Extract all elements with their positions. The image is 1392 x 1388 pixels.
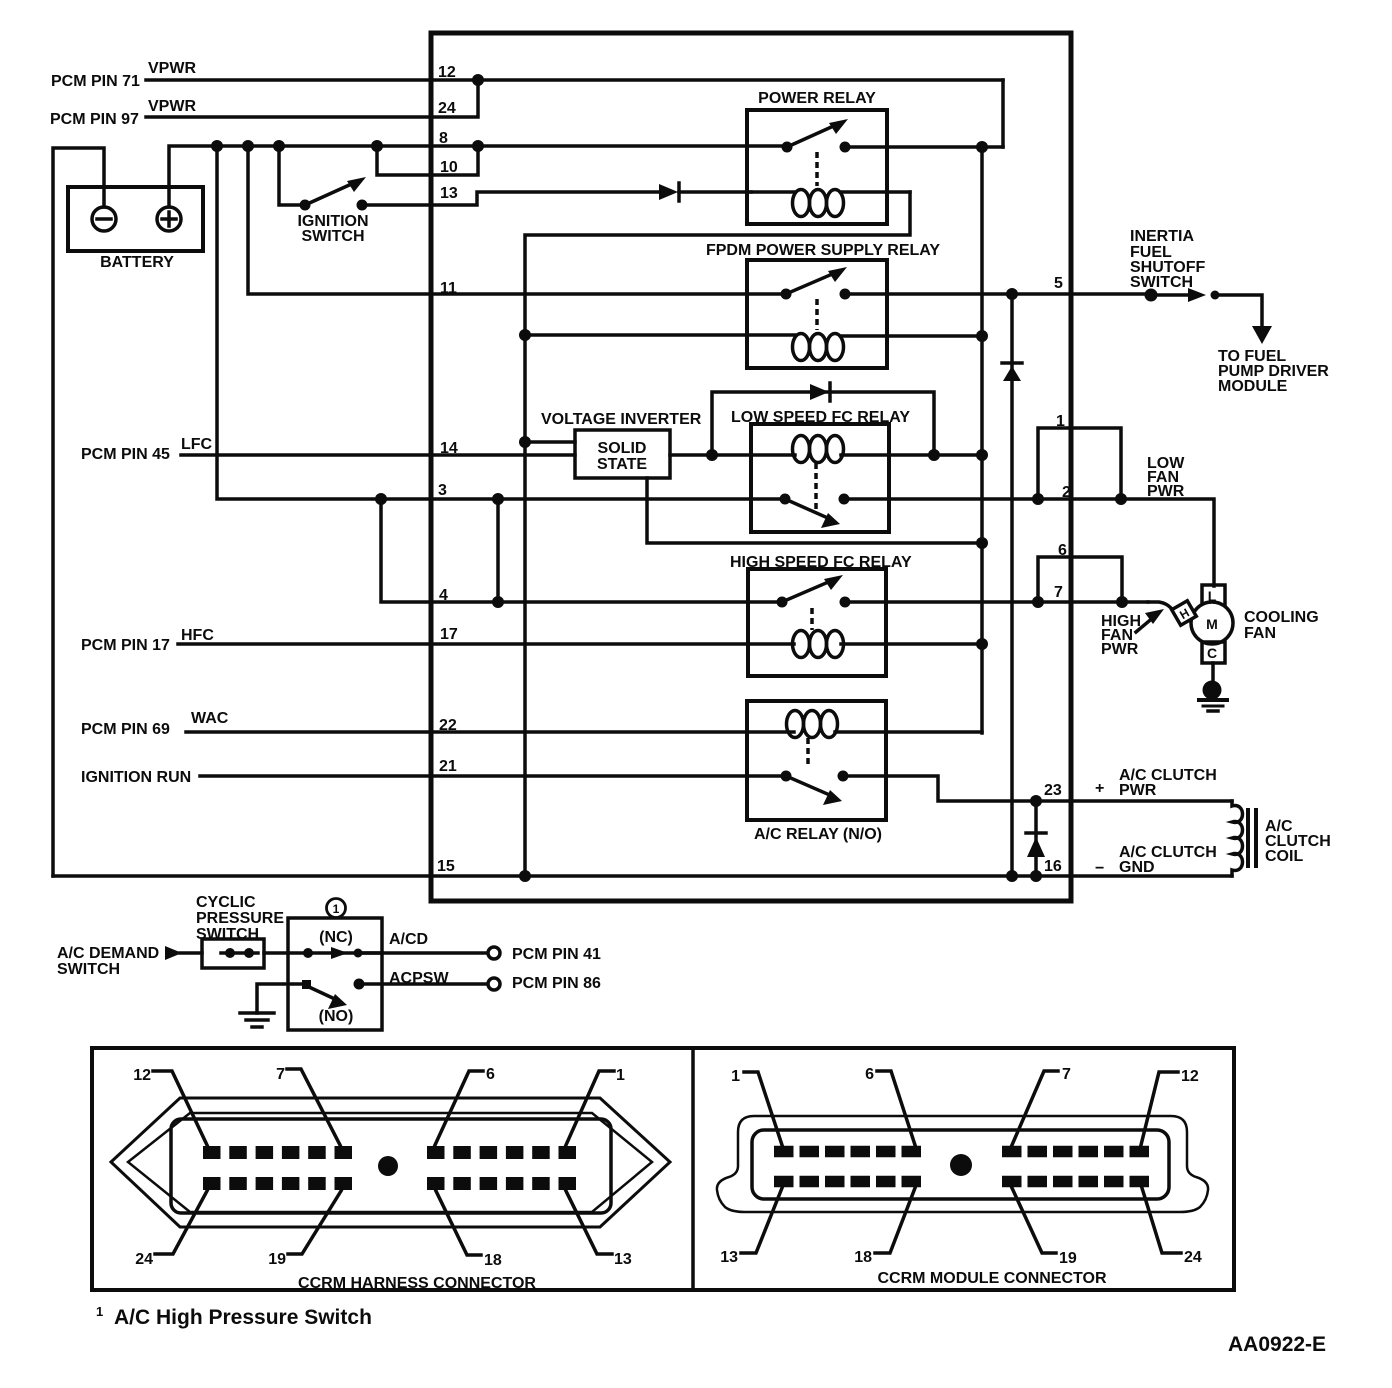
wire LS coil bypass diode loop	[712, 392, 934, 455]
svg-text:CCRM HARNESS CONNECTOR: CCRM HARNESS CONNECTOR	[298, 1275, 536, 1292]
svg-text:COIL: COIL	[1265, 848, 1303, 865]
svg-text:6: 6	[1058, 542, 1067, 559]
cyclic pressure switch	[202, 939, 264, 968]
NC contact set	[303, 947, 363, 959]
wire A/CD to PCM PIN 41	[357, 951, 487, 955]
module pins row top left	[774, 1146, 923, 1158]
node 3-line junction x498	[492, 493, 504, 505]
wire pin 1 jumper bracket	[1038, 428, 1121, 499]
node bus junction x377	[371, 140, 383, 152]
svg-text:A/C DEMAND: A/C DEMAND	[57, 945, 159, 962]
circled 1 marker	[327, 899, 346, 918]
CCRM harness connector outline inner	[128, 1113, 652, 1212]
svg-text:16: 16	[1044, 858, 1062, 875]
svg-text:19: 19	[1059, 1250, 1077, 1267]
svg-text:8: 8	[439, 130, 448, 147]
svg-text:1: 1	[616, 1067, 625, 1084]
ignition switch feed wire	[279, 146, 305, 205]
svg-text:PCM PIN 97: PCM PIN 97	[50, 111, 139, 128]
svg-text:M: M	[1206, 616, 1218, 632]
wire battery negative to ground line	[53, 148, 104, 876]
leader module pin 12	[1141, 1072, 1178, 1145]
node switched bus top	[976, 141, 988, 153]
module center index hole	[950, 1154, 972, 1176]
wire PCM PIN 17 HFC to pin 17 coil	[178, 642, 794, 646]
svg-text:24: 24	[438, 100, 456, 117]
relay POWER RELAY	[747, 110, 910, 224]
wire inverter ground side to bus	[647, 478, 982, 543]
label arrow high fan pwr	[1136, 609, 1164, 632]
relay LOW SPEED FC RELAY	[751, 424, 982, 532]
A/C high pressure switch box	[288, 918, 382, 1030]
wire pin 23 from A/C relay contact	[843, 776, 1232, 801]
relay FPDM POWER SUPPLY RELAY	[525, 260, 982, 368]
wire 3-4 outer jumper	[381, 499, 782, 602]
wire inverter output to LS coil	[670, 453, 795, 457]
svg-text:GND: GND	[1119, 859, 1155, 876]
svg-text:PRESSURE: PRESSURE	[196, 910, 284, 927]
svg-text:1: 1	[1056, 413, 1065, 430]
diode D3 fuel pump clamp	[1002, 363, 1022, 381]
wire PCM PIN 45 LFC to pin 14	[181, 453, 575, 457]
wire pin 10 jumper	[377, 146, 478, 175]
A/C clutch coil	[1232, 801, 1256, 876]
svg-text:AA0922-E: AA0922-E	[1228, 1333, 1326, 1356]
svg-text:FPDM POWER SUPPLY RELAY: FPDM POWER SUPPLY RELAY	[706, 242, 940, 259]
relay A/C RELAY (N/O)	[747, 701, 982, 820]
svg-text:PWR: PWR	[1101, 641, 1139, 658]
svg-text:24: 24	[135, 1251, 153, 1268]
svg-text:PCM PIN 71: PCM PIN 71	[51, 73, 140, 90]
node FPDM coil to bus	[976, 330, 988, 342]
wire high fan pwr to motor H terminal	[1148, 602, 1177, 613]
wire PCM PIN 71 VPWR to pin 12	[146, 78, 1003, 82]
svg-text:7: 7	[276, 1066, 285, 1083]
svg-text:COOLING: COOLING	[1244, 609, 1319, 626]
node ground junction x1036	[1030, 870, 1042, 882]
svg-text:IGNITION RUN: IGNITION RUN	[81, 769, 191, 786]
module pins row bottom right	[1002, 1176, 1149, 1188]
svg-text:2: 2	[1062, 484, 1071, 501]
diode D1 on pin 13 line	[659, 183, 751, 201]
svg-text:PCM PIN 86: PCM PIN 86	[512, 975, 601, 992]
svg-text:SWITCH: SWITCH	[57, 961, 120, 978]
svg-text:C: C	[1207, 645, 1217, 661]
node pin1 bracket right	[1115, 493, 1127, 505]
svg-text:L: L	[1208, 588, 1217, 604]
wire power relay switched output pin 8	[845, 145, 1003, 149]
node LS coil diode junction left	[706, 449, 718, 461]
svg-text:22: 22	[439, 717, 457, 734]
node 4-line junction x498	[492, 596, 504, 608]
svg-text:14: 14	[440, 440, 458, 457]
harness pins row bottom left	[203, 1177, 352, 1190]
svg-text:7: 7	[1062, 1066, 1071, 1083]
CCRM module connector outline outer	[717, 1116, 1208, 1212]
node pin6 bracket right	[1116, 596, 1128, 608]
harness pins row top left	[203, 1146, 352, 1159]
node LS coil diode junction right	[928, 449, 940, 461]
wire pin 6 jumper bracket	[1038, 557, 1122, 602]
svg-text:SWITCH: SWITCH	[196, 926, 259, 943]
leader module pin 19	[1012, 1188, 1056, 1253]
svg-text:12: 12	[1181, 1068, 1199, 1085]
node pin6 bracket left	[1032, 596, 1044, 608]
svg-text:SWITCH: SWITCH	[1130, 274, 1193, 291]
svg-text:VPWR: VPWR	[148, 60, 196, 77]
svg-text:CYCLIC: CYCLIC	[196, 894, 256, 911]
CCRM harness connector shell	[171, 1119, 611, 1213]
svg-text:VOLTAGE INVERTER: VOLTAGE INVERTER	[541, 411, 702, 428]
wire PCM PIN 69 WAC to pin 22 coil	[186, 730, 794, 734]
ignition switch	[300, 177, 368, 211]
svg-text:(NC): (NC)	[319, 929, 353, 946]
leader harness pin 13	[566, 1191, 612, 1254]
harness pins row top right	[427, 1146, 576, 1159]
svg-text:INERTIA: INERTIA	[1130, 228, 1194, 245]
svg-text:5: 5	[1054, 275, 1063, 292]
svg-text:6: 6	[865, 1066, 874, 1083]
wire to fuel pump driver module	[1215, 295, 1262, 328]
battery BATTERY	[68, 187, 203, 251]
leader harness pin 6	[435, 1071, 483, 1145]
ground cyclic switch	[240, 984, 303, 1027]
leader module pin 1	[744, 1072, 782, 1145]
wire ground return trunk	[525, 192, 910, 876]
node VPWR junction	[472, 74, 484, 86]
leader module pin 24	[1142, 1188, 1181, 1253]
svg-text:HIGH SPEED FC RELAY: HIGH SPEED FC RELAY	[730, 554, 912, 571]
terminal PCM PIN 41	[488, 947, 500, 959]
svg-text:FAN: FAN	[1244, 625, 1276, 642]
svg-text:+: +	[1095, 780, 1104, 797]
wire battery positive to bus	[169, 146, 785, 207]
svg-text:PCM PIN 69: PCM PIN 69	[81, 721, 170, 738]
svg-text:21: 21	[439, 758, 457, 775]
leader module pin 7	[1012, 1071, 1058, 1145]
svg-text:−: −	[1095, 860, 1104, 877]
NO contact set	[302, 979, 365, 1010]
node pin5 to fuel diode branch	[1006, 288, 1018, 300]
node bus junction x248	[242, 140, 254, 152]
node trunk junction FPDM coil	[519, 329, 531, 341]
node bus junction x279	[273, 140, 285, 152]
svg-text:4: 4	[439, 587, 448, 604]
diode D2 bypass	[810, 383, 830, 401]
node LS coil to bus	[976, 449, 988, 461]
wire pin 13 from ignition switch	[362, 192, 658, 205]
leader harness pin 1	[566, 1071, 614, 1145]
wire fuel diode branch vertical	[1010, 294, 1014, 876]
CCRM harness connector outline outer	[111, 1098, 670, 1227]
svg-text:A/C RELAY (N/O): A/C RELAY (N/O)	[754, 826, 882, 843]
wire 3-4 inner jumper	[496, 499, 500, 602]
svg-text:(NO): (NO)	[319, 1008, 354, 1025]
svg-text:1: 1	[333, 902, 340, 916]
node clutch diode top	[1030, 795, 1042, 807]
svg-text:ACPSW: ACPSW	[389, 970, 449, 987]
svg-text:6: 6	[486, 1066, 495, 1083]
CCRM module connector shell	[752, 1130, 1169, 1199]
terminal PCM PIN 86	[488, 978, 500, 990]
node pin1 bracket left	[1032, 493, 1044, 505]
node ground junction x1012	[1006, 870, 1018, 882]
svg-text:MODULE: MODULE	[1218, 378, 1288, 395]
wire pin 12 drop to switched bus	[1001, 80, 1005, 147]
wire PCM PIN 97 VPWR to pin 24	[146, 80, 478, 117]
svg-text:SOLID: SOLID	[598, 440, 647, 457]
wire ground line pin 15 / 16	[53, 874, 1232, 878]
svg-text:VPWR: VPWR	[148, 98, 196, 115]
svg-text:13: 13	[614, 1251, 632, 1268]
node bus junction x478	[472, 140, 484, 152]
wire pin 3 feed	[217, 146, 785, 499]
svg-text:PWR: PWR	[1119, 782, 1157, 799]
A/C demand switch arrow	[165, 946, 202, 960]
svg-text:A/C High Pressure Switch: A/C High Pressure Switch	[114, 1306, 372, 1329]
svg-text:A/CD: A/CD	[389, 931, 428, 948]
wire pin 11 feed	[248, 146, 786, 294]
svg-text:13: 13	[440, 185, 458, 202]
svg-text:24: 24	[1184, 1249, 1202, 1266]
svg-text:PCM PIN 17: PCM PIN 17	[81, 637, 170, 654]
relay HIGH SPEED FC RELAY	[748, 569, 982, 676]
leader module pin 6	[877, 1071, 915, 1145]
svg-text:LFC: LFC	[181, 436, 213, 453]
svg-text:23: 23	[1044, 782, 1062, 799]
svg-text:18: 18	[854, 1249, 872, 1266]
svg-text:3: 3	[438, 482, 447, 499]
leader harness pin 18	[436, 1191, 481, 1255]
module pins row bottom left	[774, 1176, 923, 1188]
node HS coil to bus	[976, 638, 988, 650]
svg-text:10: 10	[440, 159, 458, 176]
inertia fuel shutoff switch	[1145, 288, 1220, 302]
svg-text:12: 12	[438, 64, 456, 81]
leader harness pin 19	[288, 1191, 341, 1254]
wire switched B+ bus	[980, 147, 984, 733]
harness pins row bottom right	[427, 1177, 576, 1190]
svg-text:17: 17	[440, 626, 458, 643]
svg-text:PCM PIN 45: PCM PIN 45	[81, 446, 170, 463]
svg-text:1: 1	[96, 1304, 103, 1319]
wire ACPSW to PCM PIN 86	[359, 982, 487, 986]
node trunk junction inverter	[519, 436, 531, 448]
leader harness pin 24	[155, 1191, 207, 1254]
node bus junction x217	[211, 140, 223, 152]
module pins row top right	[1002, 1146, 1149, 1158]
svg-text:HFC: HFC	[181, 627, 214, 644]
svg-text:SWITCH: SWITCH	[301, 228, 364, 245]
wire IGNITION RUN to pin 21	[200, 774, 786, 778]
svg-text:LOW SPEED FC RELAY: LOW SPEED FC RELAY	[731, 409, 910, 426]
svg-text:CCRM MODULE CONNECTOR: CCRM MODULE CONNECTOR	[877, 1270, 1106, 1287]
svg-text:PWR: PWR	[1147, 483, 1185, 500]
wire pin 7 from HS contact	[845, 600, 1148, 604]
svg-text:18: 18	[484, 1252, 502, 1269]
svg-text:7: 7	[1054, 584, 1063, 601]
cooling fan motor M	[1172, 585, 1233, 686]
leader harness pin 7	[287, 1069, 340, 1145]
leader module pin 13	[741, 1188, 782, 1253]
svg-text:11: 11	[440, 280, 457, 297]
panel divider	[691, 1048, 695, 1290]
node ground junction x525	[519, 870, 531, 882]
node 3-line junction x381	[375, 493, 387, 505]
svg-text:12: 12	[133, 1067, 151, 1084]
CCRM module box	[431, 33, 1071, 901]
ground cooling fan	[1199, 681, 1227, 712]
harness center index hole	[378, 1156, 398, 1176]
svg-text:BATTERY: BATTERY	[100, 254, 174, 271]
connector panel box	[92, 1048, 1234, 1290]
wire clutch diode vertical	[1034, 801, 1038, 876]
svg-text:15: 15	[437, 858, 455, 875]
svg-text:19: 19	[268, 1251, 286, 1268]
voltage inverter SOLID STATE	[525, 430, 670, 478]
wire pin 5 from FPDM contact	[845, 292, 1151, 296]
leader harness pin 12	[153, 1071, 207, 1145]
wire to high pressure switch	[264, 951, 382, 955]
svg-text:PCM PIN 41: PCM PIN 41	[512, 946, 601, 963]
diode D4 clutch clamp	[1026, 833, 1046, 857]
svg-text:POWER RELAY: POWER RELAY	[758, 90, 876, 107]
svg-text:WAC: WAC	[191, 710, 229, 727]
svg-text:1: 1	[731, 1068, 740, 1085]
node inverter to bus	[976, 537, 988, 549]
leader module pin 18	[875, 1188, 915, 1253]
svg-text:STATE: STATE	[597, 456, 647, 473]
svg-text:13: 13	[720, 1249, 738, 1266]
wire pin 2 from LS contact	[844, 499, 1214, 586]
